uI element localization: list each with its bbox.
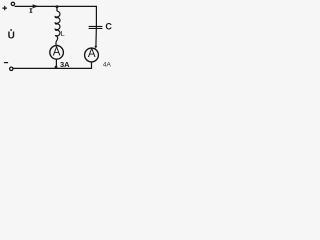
svg-text:3A: 3A bbox=[60, 60, 70, 69]
svg-text:L: L bbox=[61, 31, 65, 38]
svg-text:A: A bbox=[53, 47, 61, 59]
svg-text:C: C bbox=[105, 22, 112, 32]
svg-text:U: U bbox=[8, 31, 15, 42]
svg-text:4A: 4A bbox=[103, 62, 112, 69]
svg-text:A: A bbox=[88, 48, 96, 60]
